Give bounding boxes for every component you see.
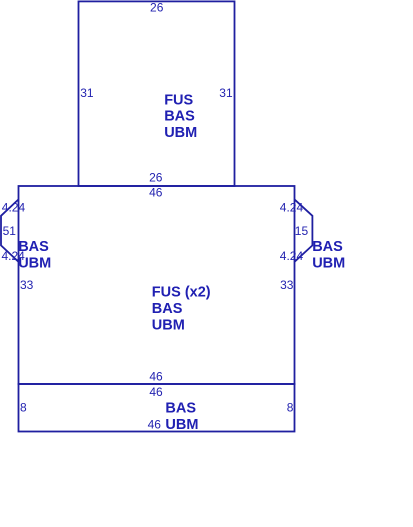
svg-text:15: 15 <box>295 224 309 238</box>
svg-text:FUS (x2): FUS (x2) <box>152 285 211 301</box>
svg-text:26: 26 <box>149 170 163 184</box>
svg-text:UBM: UBM <box>165 417 198 433</box>
svg-text:26: 26 <box>150 0 164 14</box>
svg-text:4.24: 4.24 <box>280 200 304 214</box>
svg-text:UBM: UBM <box>152 317 185 333</box>
svg-text:UBM: UBM <box>18 256 51 272</box>
svg-text:BAS: BAS <box>152 301 183 317</box>
svg-text:FUS: FUS <box>164 92 193 108</box>
svg-text:8: 8 <box>20 401 27 415</box>
svg-text:4.24: 4.24 <box>2 200 26 214</box>
svg-text:31: 31 <box>80 86 94 100</box>
svg-text:8: 8 <box>287 401 294 415</box>
right chamfer cutout outline <box>295 199 313 261</box>
svg-text:33: 33 <box>20 278 34 292</box>
svg-text:31: 31 <box>219 86 233 100</box>
svg-text:46: 46 <box>149 186 163 200</box>
svg-text:51: 51 <box>3 224 17 238</box>
svg-text:46: 46 <box>149 369 163 383</box>
svg-text:UBM: UBM <box>312 256 345 272</box>
svg-text:BAS: BAS <box>165 400 196 416</box>
top panel outline FUS/BAS/UBM (26x31) <box>79 1 235 186</box>
svg-text:BAS: BAS <box>164 109 195 125</box>
bottom strip outline BAS/UBM (46x8) <box>19 384 295 432</box>
svg-text:33: 33 <box>280 278 294 292</box>
svg-text:46: 46 <box>148 417 162 431</box>
left chamfer cutout outline <box>1 199 19 261</box>
main panel outline FUS(x2)/BAS/UBM (46x33) <box>19 186 295 384</box>
svg-text:UBM: UBM <box>164 125 197 141</box>
svg-text:46: 46 <box>149 385 163 399</box>
svg-text:BAS: BAS <box>18 239 49 255</box>
svg-text:BAS: BAS <box>312 239 343 255</box>
svg-text:4.24: 4.24 <box>280 249 304 263</box>
